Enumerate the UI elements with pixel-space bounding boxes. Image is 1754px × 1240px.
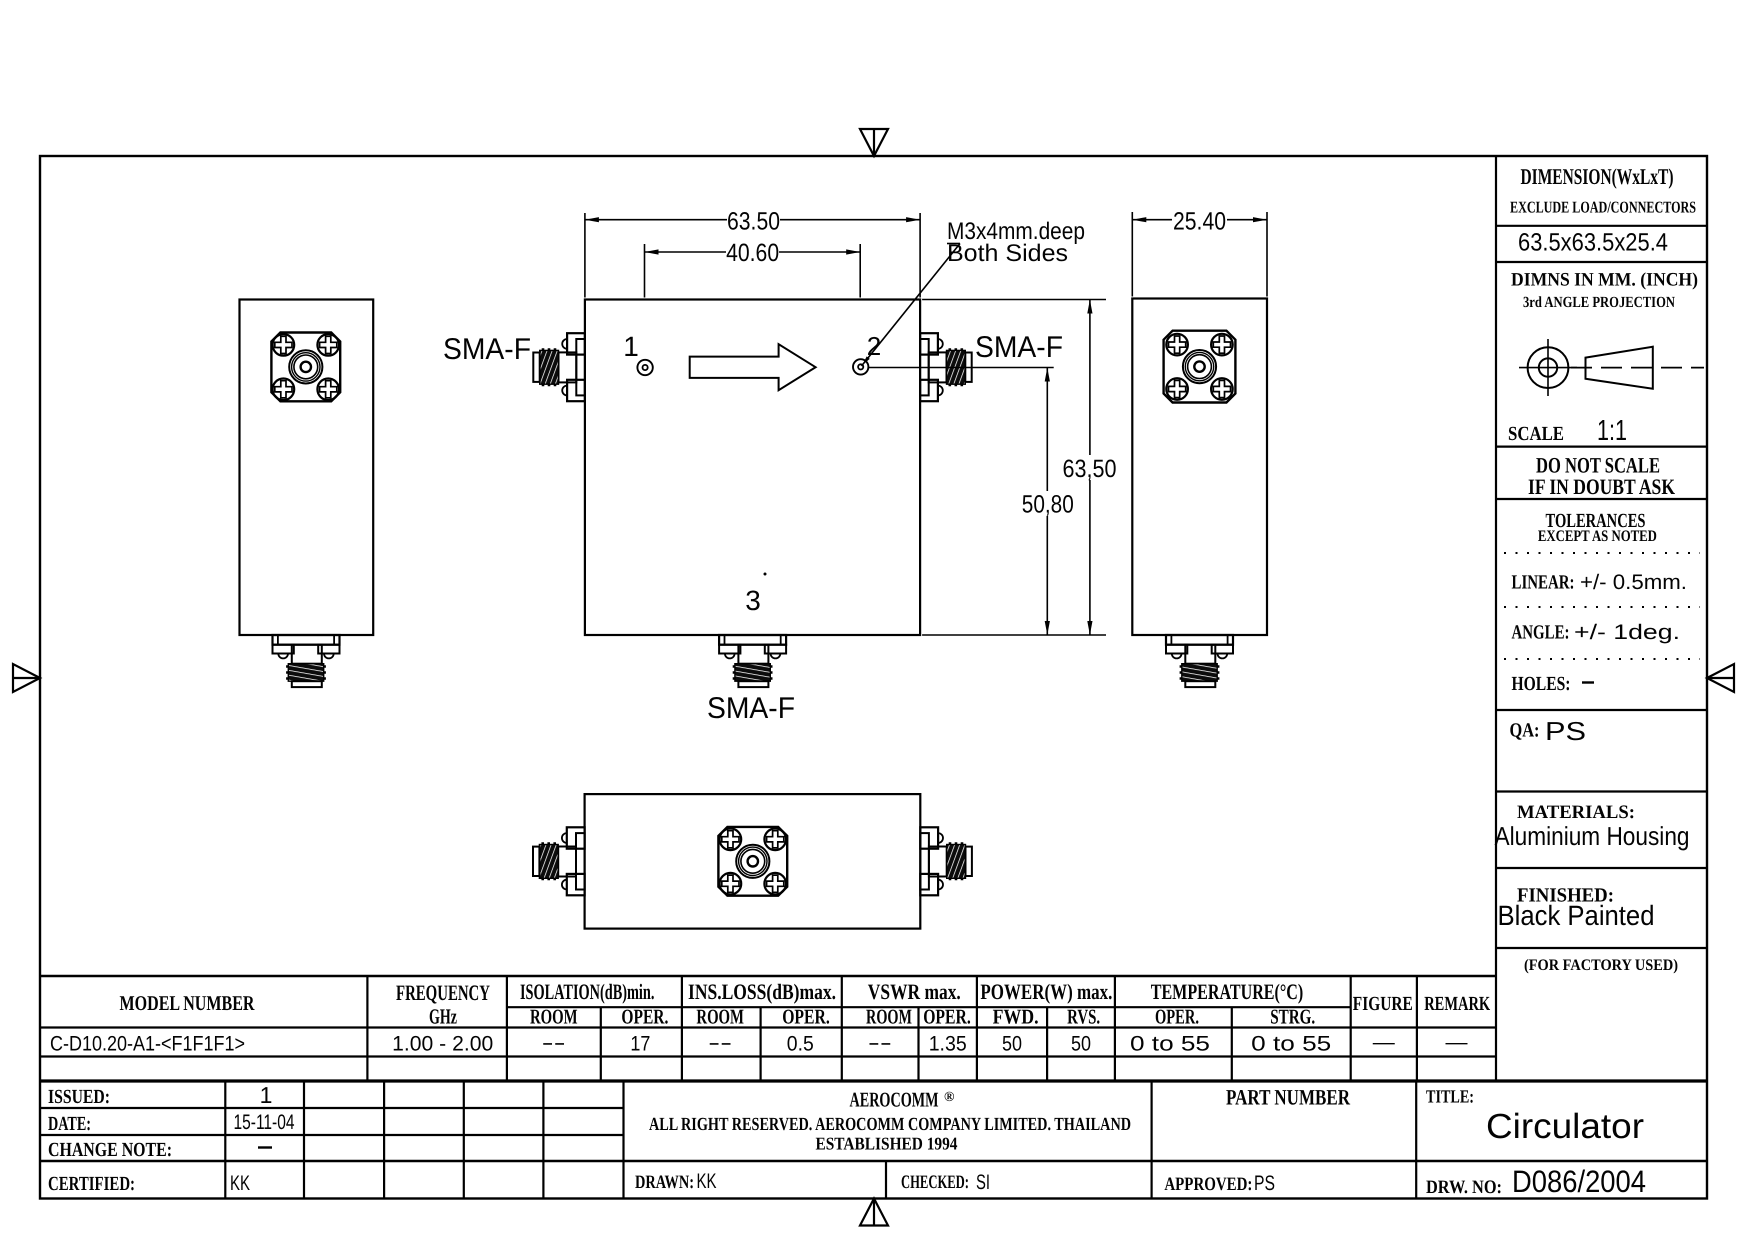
svg-text:PS: PS	[1545, 716, 1586, 746]
svg-text:®: ®	[944, 1090, 955, 1105]
svg-text:CERTIFIED:: CERTIFIED:	[48, 1173, 135, 1195]
svg-text:EXCLUDE LOAD/CONNECTORS: EXCLUDE LOAD/CONNECTORS	[1510, 198, 1696, 217]
svg-text:POWER(W) max.: POWER(W) max.	[980, 979, 1112, 1004]
svg-text:0 to 55: 0 to 55	[1251, 1033, 1331, 1056]
svg-text:1: 1	[623, 331, 639, 362]
svg-text:DRAWN:: DRAWN:	[635, 1172, 694, 1193]
svg-text:LINEAR:: LINEAR:	[1512, 572, 1575, 594]
svg-text:0.5: 0.5	[787, 1033, 814, 1056]
svg-text:(FOR FACTORY USED): (FOR FACTORY USED)	[1524, 957, 1678, 974]
svg-text:FREQUENCY: FREQUENCY	[396, 980, 490, 1005]
svg-text:25.40: 25.40	[1173, 207, 1226, 235]
svg-text:Aluminium Housing: Aluminium Housing	[1495, 821, 1690, 851]
svg-text:--: --	[868, 1032, 892, 1055]
svg-text:HOLES:: HOLES:	[1512, 673, 1571, 695]
svg-text:SMA-F: SMA-F	[975, 331, 1063, 364]
svg-text:APPROVED:: APPROVED:	[1164, 1174, 1252, 1195]
svg-text:PART NUMBER: PART NUMBER	[1226, 1085, 1351, 1110]
svg-text:KK: KK	[697, 1170, 717, 1193]
svg-text:ROOM: ROOM	[866, 1005, 912, 1029]
svg-text:--: --	[542, 1032, 566, 1055]
svg-text:DIMNS IN MM. (INCH): DIMNS IN MM. (INCH)	[1511, 270, 1698, 291]
svg-text:63,50: 63,50	[1063, 455, 1117, 483]
svg-text:ANGLE:: ANGLE:	[1512, 622, 1570, 644]
svg-text:DATE:: DATE:	[48, 1113, 91, 1135]
svg-text:0 to 55: 0 to 55	[1130, 1033, 1210, 1056]
svg-text:FIGURE: FIGURE	[1353, 993, 1413, 1015]
svg-text:40.60: 40.60	[726, 239, 779, 267]
svg-text:ISOLATION(dB)min.: ISOLATION(dB)min.	[520, 979, 655, 1004]
svg-text:MATERIALS:: MATERIALS:	[1517, 802, 1635, 823]
svg-text:ESTABLISHED 1994: ESTABLISHED 1994	[816, 1134, 958, 1154]
svg-text:50: 50	[1002, 1033, 1022, 1056]
svg-text:C-D10.20-A1-<F1F1F1>: C-D10.20-A1-<F1F1F1>	[50, 1033, 245, 1056]
svg-text:15-11-04: 15-11-04	[234, 1111, 295, 1134]
svg-text:RVS.: RVS.	[1067, 1005, 1100, 1029]
svg-text:SI: SI	[976, 1171, 990, 1194]
svg-text:Both Sides: Both Sides	[947, 240, 1068, 267]
svg-text:SMA-F: SMA-F	[443, 333, 531, 366]
svg-text:50: 50	[1071, 1033, 1091, 1056]
svg-text:FWD.: FWD.	[993, 1005, 1039, 1029]
svg-text:—: —	[1373, 1031, 1395, 1054]
svg-text:50,80: 50,80	[1022, 491, 1074, 519]
svg-text:3: 3	[745, 585, 761, 616]
svg-text:DIMENSION(WxLxT): DIMENSION(WxLxT)	[1521, 164, 1674, 189]
svg-text:ALL RIGHT RESERVED. AEROCO: ALL RIGHT RESERVED. AEROCOMM COMPANY LIM…	[649, 1115, 1131, 1135]
svg-text:17: 17	[630, 1033, 650, 1056]
svg-text:3rd ANGLE PROJECTION: 3rd ANGLE PROJECTION	[1523, 294, 1675, 311]
svg-text:QA:: QA:	[1510, 720, 1540, 742]
svg-text:AEROCOMM: AEROCOMM	[850, 1088, 939, 1112]
svg-text:OPER.: OPER.	[1155, 1005, 1199, 1029]
svg-text:D086/2004: D086/2004	[1512, 1164, 1646, 1199]
svg-text:Circulator: Circulator	[1486, 1107, 1644, 1146]
svg-text:SMA-F: SMA-F	[707, 692, 795, 725]
svg-text:—: —	[1446, 1031, 1468, 1054]
svg-text:TITLE:: TITLE:	[1426, 1088, 1474, 1108]
svg-text:OPER.: OPER.	[621, 1005, 668, 1029]
svg-text:1:1: 1:1	[1597, 415, 1627, 447]
svg-text:EXCEPT AS NOTED: EXCEPT AS NOTED	[1538, 528, 1657, 545]
svg-text:STRG.: STRG.	[1270, 1005, 1315, 1029]
svg-text:ISSUED:: ISSUED:	[48, 1086, 110, 1108]
svg-text:--: --	[708, 1032, 732, 1055]
svg-text:ROOM: ROOM	[696, 1005, 744, 1029]
svg-text:+/- 0.5mm.: +/- 0.5mm.	[1580, 571, 1687, 594]
svg-text:MODEL NUMBER: MODEL NUMBER	[120, 991, 256, 1015]
svg-text:DRW. NO:: DRW. NO:	[1426, 1177, 1502, 1198]
svg-text:SCALE: SCALE	[1508, 423, 1564, 445]
svg-text:+/- 1deg.: +/- 1deg.	[1574, 621, 1680, 644]
svg-text:1.00 - 2.00: 1.00 - 2.00	[392, 1033, 493, 1056]
svg-text:OPER.: OPER.	[782, 1005, 830, 1029]
svg-text:IF IN DOUBT ASK: IF IN DOUBT ASK	[1528, 474, 1675, 499]
svg-text:KK: KK	[230, 1172, 250, 1195]
svg-text:REMARK: REMARK	[1424, 993, 1490, 1015]
svg-text:ROOM: ROOM	[530, 1005, 578, 1029]
svg-text:Black Painted: Black Painted	[1498, 900, 1655, 931]
svg-text:GHz: GHz	[429, 1005, 457, 1029]
svg-text:1: 1	[260, 1082, 273, 1108]
svg-text:PS: PS	[1254, 1172, 1275, 1195]
svg-text:INS.LOSS(dB)max.: INS.LOSS(dB)max.	[688, 979, 836, 1004]
svg-text:VSWR max.: VSWR max.	[868, 979, 961, 1004]
svg-text:CHECKED:: CHECKED:	[901, 1172, 969, 1193]
svg-text:CHANGE NOTE:: CHANGE NOTE:	[48, 1139, 172, 1161]
svg-text:63.50: 63.50	[727, 207, 780, 235]
svg-text:TEMPERATURE(°C): TEMPERATURE(°C)	[1151, 979, 1304, 1004]
svg-text:OPER.: OPER.	[923, 1005, 971, 1029]
svg-text:63.5x63.5x25.4: 63.5x63.5x25.4	[1518, 229, 1668, 257]
svg-text:1.35: 1.35	[929, 1033, 967, 1056]
